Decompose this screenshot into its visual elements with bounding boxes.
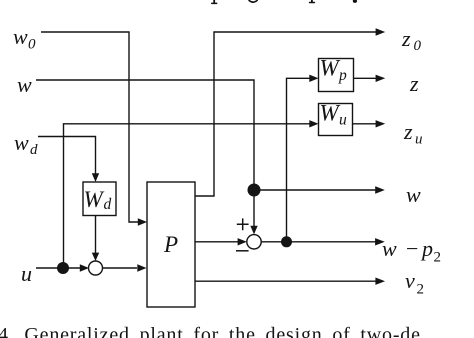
wire Wu output to zu xyxy=(353,123,376,125)
svg-text:u: u xyxy=(339,112,347,129)
top text descender fragments xyxy=(213,0,215,3)
box Wd xyxy=(83,182,116,216)
svg-text:−: − xyxy=(406,236,418,261)
svg-text:p: p xyxy=(420,236,433,261)
summing junction D xyxy=(247,235,261,249)
box Wp xyxy=(319,59,354,92)
wire wd input: right then down to Wd xyxy=(38,137,96,175)
arrowhead v2 xyxy=(375,278,385,285)
svg-text:z: z xyxy=(401,26,411,51)
box Wu xyxy=(319,104,353,136)
wire from dot A up to Wu input xyxy=(64,124,310,268)
arrowhead into sum B from top (Wd) xyxy=(92,253,99,261)
arrowhead into Wd from top (wd) xyxy=(92,173,99,182)
arrowhead zu xyxy=(376,120,386,127)
svg-text:v: v xyxy=(405,268,415,293)
arrowhead z0 xyxy=(376,28,386,35)
wire Wp output to z xyxy=(354,77,378,79)
svg-text:d: d xyxy=(104,196,112,213)
arrowhead into sum D from left (p2) xyxy=(238,238,247,245)
svg-text:2: 2 xyxy=(417,282,425,298)
wire w output: from dot C right xyxy=(254,189,377,191)
arrowhead w output xyxy=(375,186,385,193)
svg-text:w: w xyxy=(382,236,397,261)
svg-text:w: w xyxy=(406,182,421,207)
svg-text:d: d xyxy=(30,142,38,158)
svg-text:w: w xyxy=(17,72,32,97)
svg-text:0: 0 xyxy=(28,37,36,53)
svg-text:P: P xyxy=(163,232,178,257)
arrowhead into P (u) xyxy=(137,264,146,271)
wire Wd output down to sum B xyxy=(95,216,97,255)
svg-text:u: u xyxy=(21,261,32,286)
wire P output p2 to sum D xyxy=(195,241,239,243)
arrowhead w-p2 xyxy=(375,238,385,245)
arrowhead into Wp xyxy=(309,75,318,82)
box P xyxy=(147,182,195,307)
svg-text:z: z xyxy=(403,119,413,144)
wire from dot E up to Wp input xyxy=(287,78,311,242)
minus sign at sum D xyxy=(236,250,249,252)
arrowhead z xyxy=(376,75,386,82)
arrowhead into sum D from top (w) xyxy=(250,226,257,235)
svg-text:4. Generalized plant for the d: 4. Generalized plant for the design of t… xyxy=(0,324,421,338)
wire w0 input: right then down then into P xyxy=(41,32,138,222)
arrowhead into Wu xyxy=(309,120,318,127)
wire P output v2 xyxy=(195,280,376,282)
junction dot C on w line xyxy=(248,184,261,197)
wire sum D to w-p2 arrow xyxy=(261,241,376,243)
svg-text:z: z xyxy=(409,71,419,96)
wire sum B to P xyxy=(103,267,138,269)
wire w input: right then down through dot to sum D xyxy=(36,80,254,227)
svg-text:w: w xyxy=(14,130,29,155)
junction dot A on u line xyxy=(57,262,69,274)
junction dot E on w-p2 line xyxy=(281,236,292,247)
plus sign at sum D xyxy=(237,218,249,230)
arrowhead into P (w0) xyxy=(138,218,147,225)
summing junction B xyxy=(89,261,103,275)
svg-text:u: u xyxy=(415,132,423,148)
wire z0: from P output up and right xyxy=(195,32,377,196)
svg-text:2: 2 xyxy=(434,250,442,266)
svg-text:W: W xyxy=(320,101,341,126)
svg-text:w: w xyxy=(13,24,28,49)
svg-text:W: W xyxy=(320,56,341,81)
wire u input through dot A to sum B xyxy=(36,267,81,269)
svg-text:p: p xyxy=(338,67,347,84)
svg-text:0: 0 xyxy=(414,38,422,54)
arrowhead into sum B from left (u) xyxy=(80,264,89,271)
svg-text:W: W xyxy=(84,187,105,212)
